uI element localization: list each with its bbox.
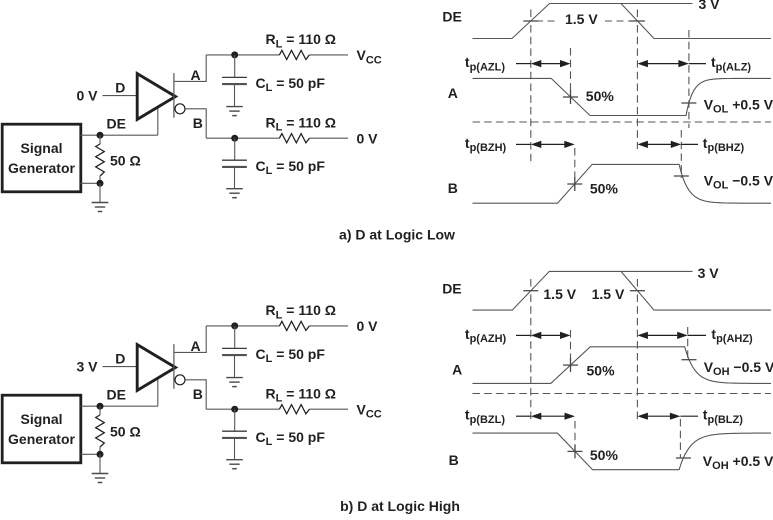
svg-text:A: A [452, 362, 462, 378]
wire rail A b [206, 325, 279, 327]
wire DE to driver enable pin a [157, 108, 159, 136]
svg-text:Generator: Generator [8, 431, 75, 447]
svg-text:A: A [448, 85, 458, 101]
inverting bubble on B output a [175, 104, 185, 114]
node rail A junction a [231, 51, 238, 58]
dashed VOL reference line (a) [473, 121, 772, 123]
arrow tp(ALZ) [646, 63, 680, 65]
svg-text:DE: DE [442, 281, 461, 297]
wire generator low side b [81, 453, 101, 455]
svg-text:3 V: 3 V [698, 265, 720, 281]
tick DE rising 1.5V crossing (b) [523, 290, 538, 292]
svg-text:B: B [449, 452, 459, 468]
wire generator low side a [81, 182, 101, 184]
wire DE from generator b [81, 405, 158, 407]
dashed line at A high-Z crossing (b) [687, 327, 689, 362]
resistor RL rail A b [279, 321, 309, 330]
svg-text:0 V: 0 V [357, 131, 379, 147]
capacitor CL on B a [234, 138, 236, 160]
driver op-amp triangle Ua [137, 74, 175, 120]
node rail B junction a [231, 135, 238, 142]
dashed line at DE rising crossing (b) [530, 295, 532, 420]
ground below CL B b [226, 459, 243, 461]
ground below generator b [92, 473, 109, 475]
svg-text:B: B [193, 386, 203, 402]
wire D input b [103, 366, 137, 368]
svg-text:50%: 50% [590, 447, 619, 463]
3 V reference line (a) [621, 3, 693, 5]
waveform A trace (b) [473, 347, 772, 384]
dashed line at A 50% crossing (b) [570, 330, 572, 367]
svg-text:Generator: Generator [8, 160, 75, 176]
wire output B b [185, 380, 206, 409]
leader to tp(BZH) arrow [516, 143, 531, 145]
svg-text:50 Ω: 50 Ω [110, 153, 141, 169]
tick A 50% crossing (a) [563, 96, 578, 98]
svg-text:0 V: 0 V [76, 88, 98, 104]
dashed line at DE falling crossing (b) [636, 295, 638, 420]
svg-text:50%: 50% [586, 88, 615, 104]
svg-text:D: D [115, 351, 125, 367]
tick DE falling 1.5V crossing (b) [630, 290, 645, 292]
inverting bubble on B output b [175, 375, 185, 385]
svg-text:50%: 50% [587, 362, 616, 378]
wire output A b [174, 326, 206, 353]
svg-text:B: B [193, 115, 203, 131]
leader from tp(ALZ) arrow [689, 63, 706, 65]
leader to tp(AZL) arrow [516, 63, 531, 65]
tick DE rising 1.5V crossing (a) [523, 20, 538, 22]
wire DE to driver enable pin b [157, 379, 159, 407]
dashed line at B high-Z crossing (a) [680, 130, 682, 178]
node DE junction b [97, 403, 104, 410]
dashed line at B 50% crossing (b) [574, 421, 576, 455]
tick VOL+0.5 crossing (a) [681, 102, 696, 104]
svg-text:3 V: 3 V [76, 359, 98, 375]
tick A 50% crossing (b) [563, 364, 578, 366]
driver op-amp triangle Ub [137, 345, 175, 391]
capacitor CL on B b [234, 409, 236, 431]
3 V reference line (b) [621, 270, 693, 272]
wire rail B b [206, 408, 279, 410]
tick VOH+0.5 crossing (b) [676, 457, 691, 459]
resistor RL rail B b [279, 405, 309, 414]
dashed line at DE falling crossing (a) [636, 25, 638, 149]
dashed line at B 50% crossing (a) [574, 148, 576, 188]
ground below CL B a [226, 188, 243, 190]
wire DE from generator a [81, 134, 158, 136]
dashed line at A high-Z crossing (a) [688, 30, 690, 128]
ground below generator a [92, 202, 109, 204]
waveform A trace (a) [473, 78, 772, 115]
tick B 50% crossing (b) [568, 450, 583, 452]
tick VOH-0.5 crossing (b) [682, 359, 697, 361]
tick B 50% crossing (a) [567, 183, 582, 185]
arrow tp(AHZ) [646, 334, 678, 336]
tick VOL-0.5 crossing (a) [674, 175, 689, 177]
dashed line at DE rising crossing (a) [530, 25, 532, 163]
node rail A junction b [231, 322, 238, 329]
driver output bar b [173, 344, 175, 389]
capacitor CL on A a [234, 55, 236, 78]
svg-text:3 V: 3 V [699, 0, 721, 12]
leader to tp(AZH) arrow [516, 334, 531, 336]
node low-side junction b [97, 451, 104, 458]
svg-text:D: D [115, 80, 125, 96]
wire to ground a [99, 183, 101, 202]
svg-text:DE: DE [442, 8, 461, 24]
node low-side junction a [97, 180, 104, 187]
wire rail B a [206, 137, 279, 139]
svg-text:DE: DE [107, 115, 126, 131]
svg-text:50%: 50% [590, 181, 619, 197]
wire D input a [103, 95, 137, 97]
svg-text:A: A [191, 338, 201, 354]
signal generator box b [2, 395, 81, 463]
leader from tp(BLZ) arrow [680, 415, 698, 417]
signal generator box a [2, 124, 81, 192]
resistor RL rail B a [279, 134, 309, 143]
svg-text:DE: DE [107, 386, 126, 402]
leader from tp(BHZ) arrow [681, 143, 698, 145]
svg-text:B: B [448, 180, 458, 196]
waveform DE trace (b) [473, 271, 772, 310]
dashed line at B high-Z crossing (b) [679, 419, 681, 458]
dashed line at A 50% crossing (a) [570, 48, 572, 104]
svg-text:Signal: Signal [20, 140, 62, 156]
svg-text:50 Ω: 50 Ω [110, 424, 141, 440]
node rail B junction b [231, 406, 238, 413]
svg-text:1.5 V: 1.5 V [565, 11, 598, 27]
wire to ground b [99, 454, 101, 473]
ground below CL A a [226, 106, 243, 108]
arrow tp(BLZ) [646, 415, 671, 417]
arrow tp(BZL) [540, 415, 566, 417]
leader to tp(BZL) arrow [516, 415, 531, 417]
arrow tp(AZL) [540, 63, 562, 65]
resistor 50 ohm b [99, 406, 101, 415]
svg-text:Signal: Signal [20, 411, 62, 427]
dashed VOH reference line (b) [473, 393, 772, 395]
leader from tp(AHZ) arrow [688, 334, 706, 336]
tick DE falling 1.5V crossing (a) [630, 20, 645, 22]
waveform B trace (a) [473, 164, 772, 203]
svg-text:1.5 V: 1.5 V [543, 286, 576, 302]
node DE junction a [97, 132, 104, 139]
ground below CL A b [226, 377, 243, 379]
driver output bar a [173, 73, 175, 118]
wire output B a [185, 109, 206, 138]
resistor RL rail A a [279, 50, 309, 59]
svg-text:a) D at Logic Low: a) D at Logic Low [339, 226, 455, 242]
svg-text:A: A [191, 67, 201, 83]
wire rail A a [206, 54, 279, 56]
waveform B trace (b) [473, 433, 772, 470]
svg-text:0 V: 0 V [357, 318, 379, 334]
arrow tp(AZH) [540, 334, 562, 336]
arrow tp(BHZ) [646, 143, 672, 145]
capacitor CL on A b [234, 326, 236, 349]
arrow tp(BZH) [540, 143, 566, 145]
svg-text:b) D at Logic High: b) D at Logic High [340, 498, 460, 514]
wire output A a [174, 55, 206, 82]
resistor 50 ohm a [99, 135, 101, 144]
svg-text:1.5 V: 1.5 V [592, 286, 625, 302]
waveform DE trace (a) [473, 4, 772, 39]
1.5 V dashed level line (a) [536, 20, 631, 22]
